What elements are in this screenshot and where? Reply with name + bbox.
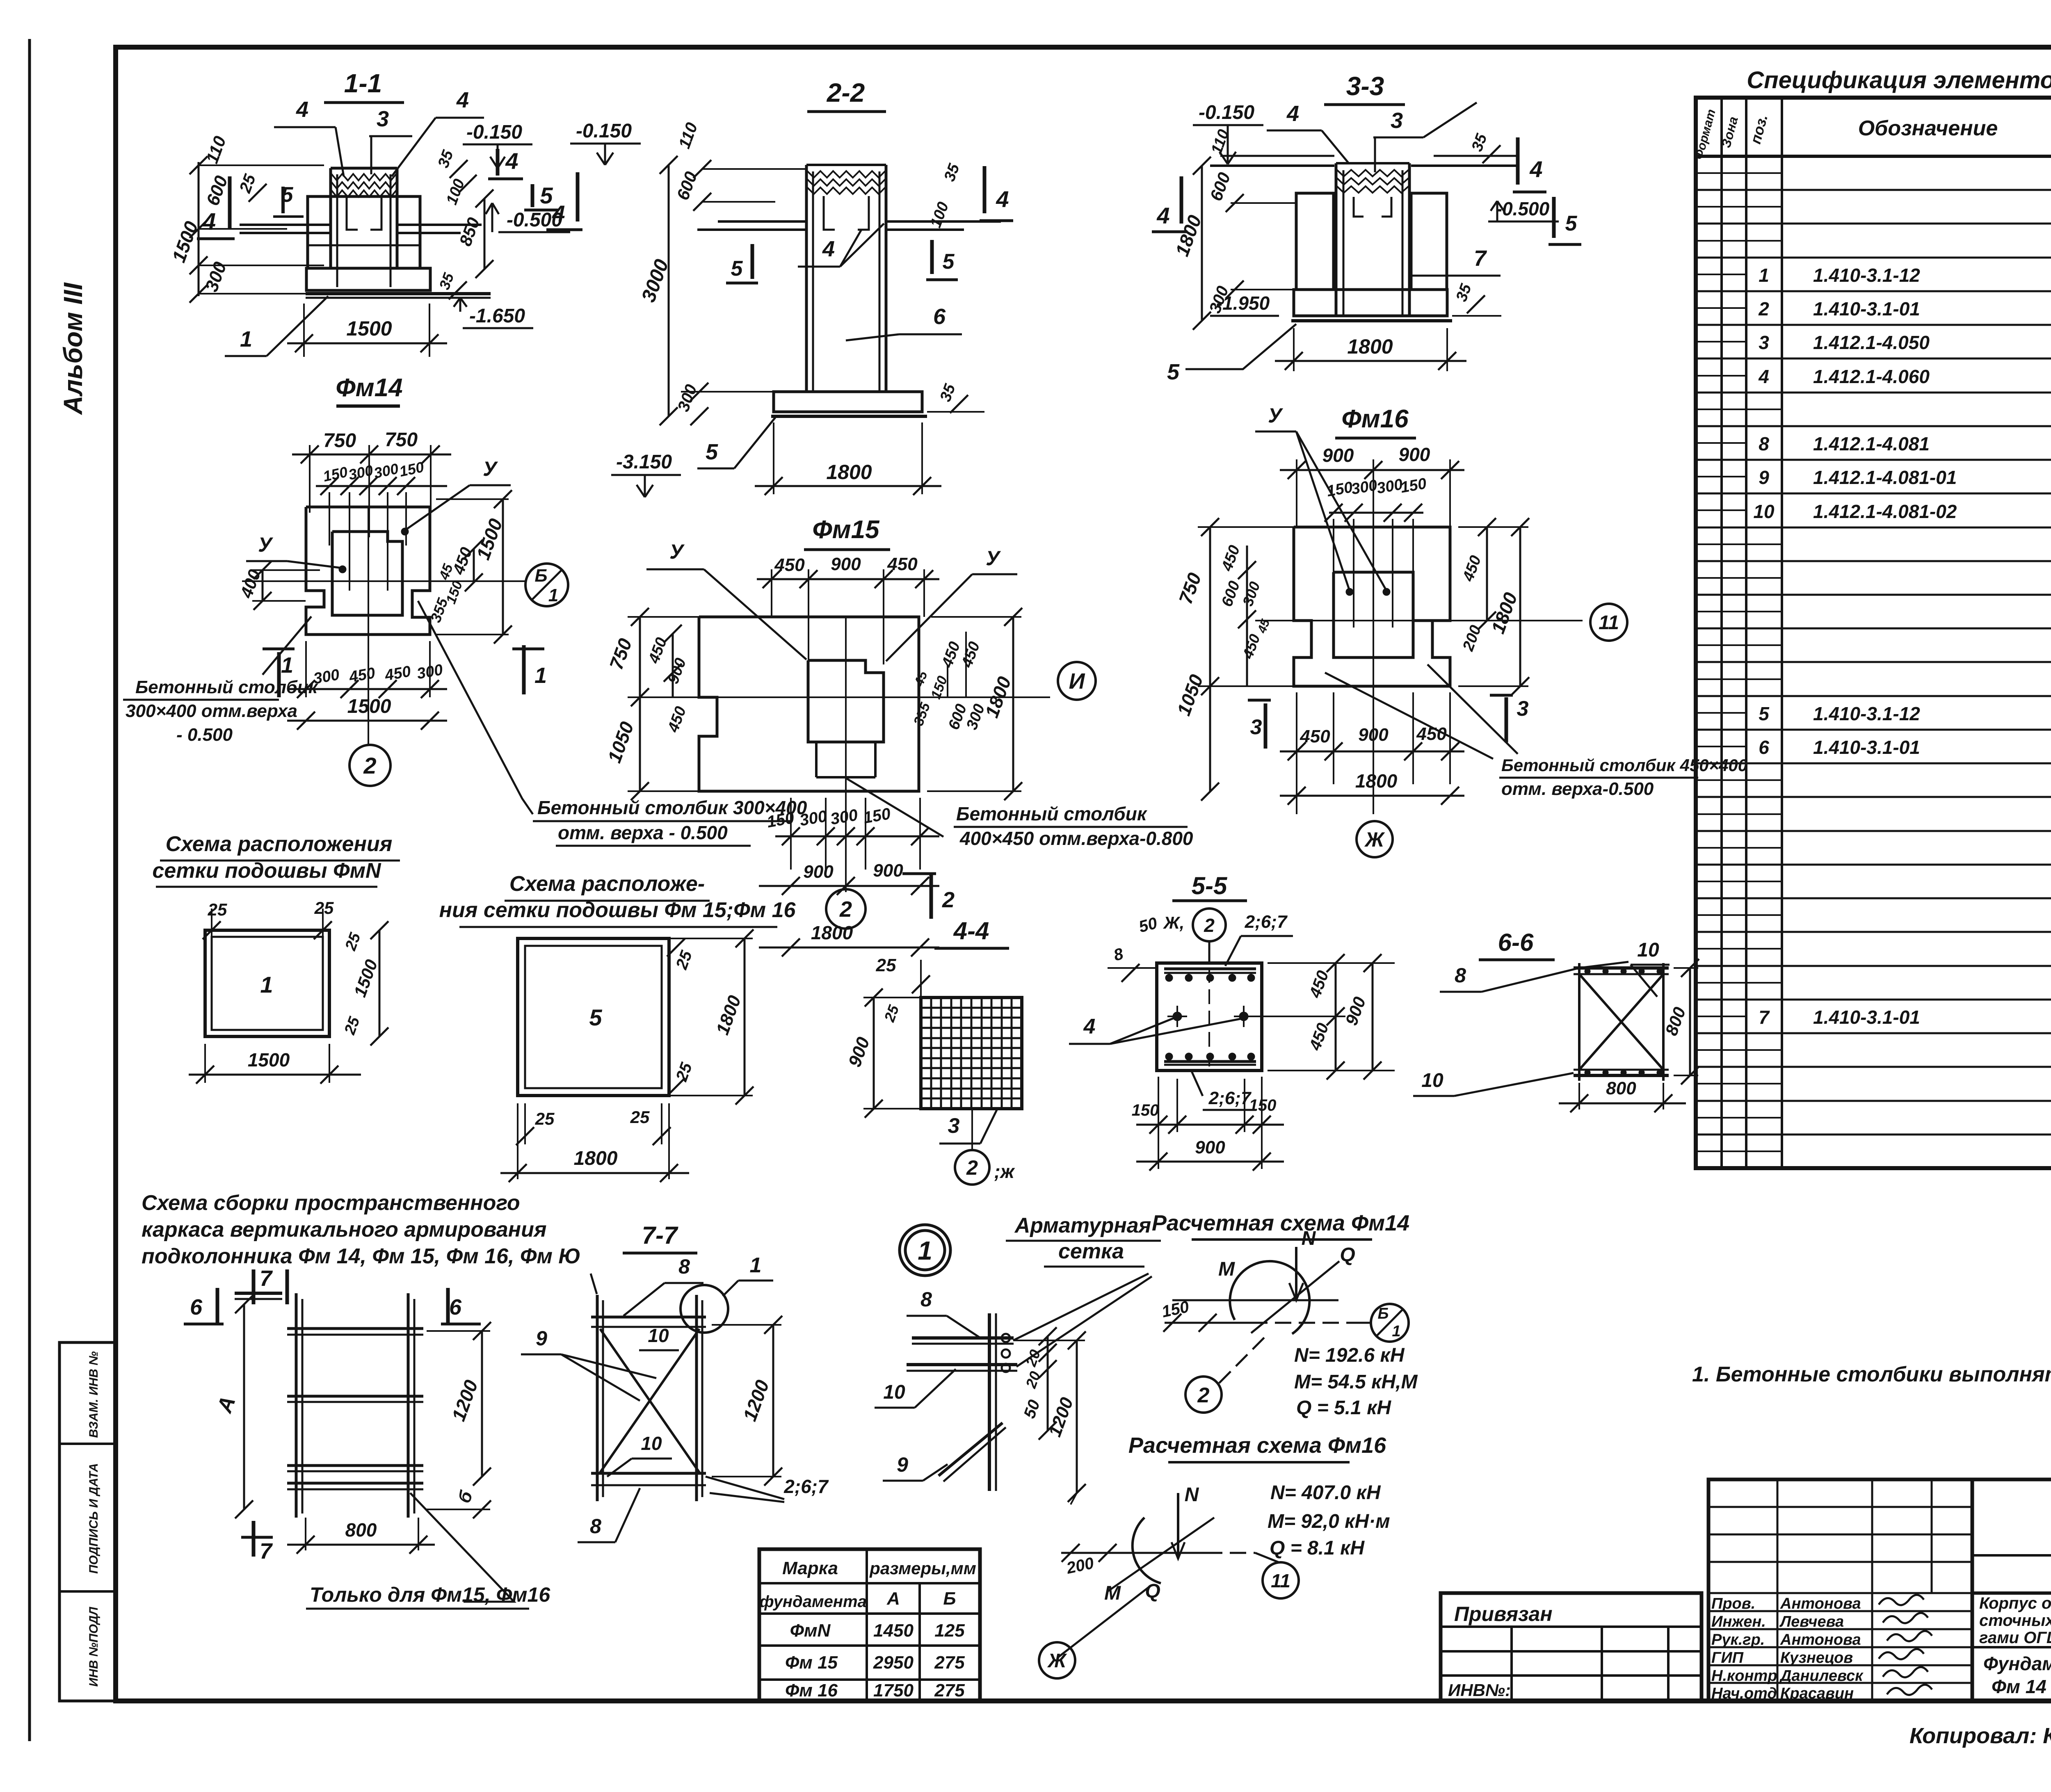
section 6-6 labels 8 10 top xyxy=(1440,939,1670,997)
svg-text:9: 9 xyxy=(1759,467,1769,488)
svg-text:Расчетная схема Фм16: Расчетная схема Фм16 xyxy=(1128,1433,1386,1458)
plan Фм14 pedestal xyxy=(332,532,402,615)
section 2-2 dim 35 right xyxy=(927,381,984,413)
section 6-6 rebar dots xyxy=(1585,968,1663,1075)
svg-text:4: 4 xyxy=(1156,203,1169,228)
section 3-3 footing xyxy=(1291,290,1452,321)
album label (rotated) Альбом III xyxy=(58,282,88,415)
plan Фм15 leader У xyxy=(646,540,1017,661)
ladder frame verticals xyxy=(296,1293,414,1518)
svg-text:6: 6 xyxy=(933,304,946,329)
svg-text:ПОДПИСЬ И ДАТА: ПОДПИСЬ И ДАТА xyxy=(87,1463,100,1574)
svg-text:-0.150: -0.150 xyxy=(466,121,522,143)
ladder top bar xyxy=(235,1293,282,1299)
svg-text:Нач.отд: Нач.отд xyxy=(1711,1685,1777,1702)
ladder rungs xyxy=(287,1329,423,1489)
svg-text:900: 900 xyxy=(803,862,834,882)
section 5-5 bottom dims 150 900 150 xyxy=(1132,1077,1284,1171)
plan Фм14 title xyxy=(336,374,402,406)
спецификация table header row xyxy=(1692,106,2051,161)
section 2-2 bottom dim 1800 xyxy=(755,422,941,495)
svg-text:Фм 14 ÷ Фм 16: Фм 14 ÷ Фм 16 xyxy=(1992,1676,2051,1697)
plan Фм15 axis circle И xyxy=(1058,662,1096,700)
svg-text:5: 5 xyxy=(706,440,718,464)
svg-text:Б: Б xyxy=(943,1589,956,1609)
section 2-2 cut markers right xyxy=(926,161,1013,280)
svg-text:2;6;7: 2;6;7 xyxy=(1245,912,1288,932)
plan Фм14 top dim 150 300 300 150 xyxy=(316,458,447,591)
svg-text:25: 25 xyxy=(208,900,227,919)
section 1-1 right cut markers 4 and 5 xyxy=(488,148,558,210)
svg-text:6-6: 6-6 xyxy=(1498,929,1534,956)
svg-text:4: 4 xyxy=(1529,156,1542,182)
svg-text:1: 1 xyxy=(548,585,558,605)
spec row 1 xyxy=(1759,258,2051,294)
svg-text:Данилевск: Данилевск xyxy=(1779,1667,1864,1685)
svg-text:900: 900 xyxy=(1358,725,1389,745)
svg-text:5: 5 xyxy=(281,183,294,207)
svg-text:Антонова: Антонова xyxy=(1780,1595,1861,1612)
svg-text:8: 8 xyxy=(1759,433,1769,454)
svg-text:Рук.гр.: Рук.гр. xyxy=(1711,1631,1765,1648)
plan Фм15 outer footprint xyxy=(699,617,919,791)
svg-text:10: 10 xyxy=(648,1325,669,1346)
svg-text:ГИП: ГИП xyxy=(1711,1649,1744,1666)
plan Фм16 right dim chain 1800 450 200 xyxy=(1458,518,1529,695)
svg-text:9: 9 xyxy=(897,1453,908,1476)
schema расположения сетки подошвы Фм15 Фм16 title xyxy=(439,872,796,927)
section 7-7 top and bottom bars xyxy=(591,1317,706,1485)
plan Фм15 pedestal with step xyxy=(808,660,884,777)
plan Фм16 cut marker 3 right xyxy=(1490,695,1529,742)
svg-text:2: 2 xyxy=(1204,915,1215,936)
section 3-3 leader 7 xyxy=(1411,246,1501,276)
section 3-3 left dim 1800 xyxy=(1171,127,1296,330)
section 7-7 labels xyxy=(521,1255,829,1542)
svg-text:25: 25 xyxy=(876,955,896,975)
svg-text:отм. верха-0.500: отм. верха-0.500 xyxy=(1501,779,1654,799)
plan Фм15 left dim chain 750 1050 xyxy=(603,608,699,800)
section 3-3 leaders 4 and 3 xyxy=(1267,101,1477,172)
svg-text:4: 4 xyxy=(996,186,1009,212)
section 1-1 cut marker 4 left xyxy=(197,176,235,239)
plan Фм14 leader У left xyxy=(246,533,346,573)
svg-text:1: 1 xyxy=(260,972,273,998)
svg-text:Обозначение: Обозначение xyxy=(1858,116,1998,140)
section 1-1 ground slab lines xyxy=(240,225,482,233)
svg-text:3: 3 xyxy=(1759,332,1769,353)
section 1-1 elevation -1.650 xyxy=(436,270,533,328)
svg-text:Альбом III: Альбом III xyxy=(58,282,88,415)
schema square 1 outline xyxy=(205,930,329,1036)
spec row 5 xyxy=(1759,696,2051,733)
section 1-1 leader 4 top left xyxy=(274,97,344,176)
svg-text:Пров.: Пров. xyxy=(1711,1595,1755,1612)
section 1-1 footing slab xyxy=(306,268,491,298)
schema square 5 outline xyxy=(518,938,669,1096)
spec row 4 xyxy=(1758,366,2051,387)
plan Фм14 bottom dim 1500 xyxy=(287,696,447,730)
svg-text:1: 1 xyxy=(534,663,547,688)
svg-text:Инжен.: Инжен. xyxy=(1711,1613,1766,1630)
section 2-2 leader 5 bottom xyxy=(697,418,775,468)
plan Фм15 bottom dim 900 900 xyxy=(759,861,939,895)
section 5-5 rebar dots top and bottom xyxy=(1165,974,1255,1060)
svg-text:3: 3 xyxy=(377,107,389,131)
svg-text:6: 6 xyxy=(1759,737,1769,758)
svg-text:1.412.1-4.081: 1.412.1-4.081 xyxy=(1813,433,1930,454)
svg-text:300×400 отм.верха: 300×400 отм.верха xyxy=(126,701,297,721)
svg-text:ИНВ №ПОДЛ: ИНВ №ПОДЛ xyxy=(87,1606,100,1687)
ladder bottom dim 800 xyxy=(287,1518,435,1554)
section 2-2 dim 300 bottom left xyxy=(674,382,774,425)
svg-text:2: 2 xyxy=(1758,298,1769,320)
section 6-6 title xyxy=(1479,929,1555,960)
section 1-1 right small dims 35 100 850 xyxy=(435,148,493,278)
svg-text:1500: 1500 xyxy=(346,317,392,340)
svg-text:1.412.1-4.081-01: 1.412.1-4.081-01 xyxy=(1813,467,1957,488)
section 2-2 title xyxy=(807,78,886,112)
spec row 7 xyxy=(1759,1000,2051,1036)
svg-text:7: 7 xyxy=(260,1539,273,1564)
svg-text:М= 54.5 кН,М: М= 54.5 кН,М xyxy=(1294,1371,1418,1393)
svg-text:900: 900 xyxy=(873,861,903,881)
svg-text:6: 6 xyxy=(190,1295,203,1319)
title block small grid xyxy=(1708,1479,1972,1701)
svg-text:сетки подошвы ФмN: сетки подошвы ФмN xyxy=(152,859,381,883)
svg-text:8: 8 xyxy=(678,1255,690,1278)
svg-text:7: 7 xyxy=(1759,1007,1770,1028)
арматурная сетка dims 50 20 20 1200 xyxy=(1013,1327,1086,1504)
svg-text:4: 4 xyxy=(1286,101,1299,126)
svg-text:125: 125 xyxy=(934,1621,965,1641)
svg-text:Фундаменты монолитные: Фундаменты монолитные xyxy=(1983,1653,2051,1674)
svg-text:11: 11 xyxy=(1271,1570,1290,1591)
ladder dim A left xyxy=(212,1295,253,1518)
svg-text:10: 10 xyxy=(883,1381,905,1403)
section 3-3 U rebar hooks xyxy=(1354,197,1391,217)
svg-text:У: У xyxy=(669,540,685,563)
svg-text:отм. верха - 0.500: отм. верха - 0.500 xyxy=(558,822,728,843)
section 6-6 label 10 bottom leader xyxy=(1413,1070,1574,1096)
plan Фм16 outer footprint xyxy=(1294,527,1450,686)
svg-text:25: 25 xyxy=(314,898,334,918)
section 3-3 column xyxy=(1336,163,1409,316)
plan Фм14 outer footprint xyxy=(306,507,430,635)
ladder note Только для Фм15 Фм16 xyxy=(306,1493,550,1609)
section 7-7 X bracing xyxy=(600,1329,699,1472)
расчетная схема Фм16 values xyxy=(1268,1482,1390,1559)
svg-text:Корпус обезвоживания осадка: Корпус обезвоживания осадка xyxy=(1979,1594,2051,1612)
svg-text:размеры,мм: размеры,мм xyxy=(869,1559,976,1578)
section 7-7 title xyxy=(623,1221,697,1253)
svg-text:2: 2 xyxy=(942,888,955,912)
svg-text:Антонова: Антонова xyxy=(1780,1631,1861,1648)
svg-text:Бетонный столбик: Бетонный столбик xyxy=(956,803,1148,824)
plan Фм16 pedestal xyxy=(1334,572,1432,657)
plan Фм15 note Бетонный столбик 400х450 xyxy=(846,778,1193,849)
svg-text:4: 4 xyxy=(1083,1015,1096,1039)
svg-text:900: 900 xyxy=(1399,444,1430,465)
schema расположения сетки подошвы ФмN title xyxy=(152,832,400,887)
svg-text:Б: Б xyxy=(534,566,547,586)
svg-text:1500: 1500 xyxy=(248,1049,290,1071)
svg-text:750: 750 xyxy=(323,430,356,452)
svg-text:5: 5 xyxy=(731,257,743,281)
section 5-5 left small dim 50 8 xyxy=(1108,945,1157,982)
svg-text:1.410-3.1-12: 1.410-3.1-12 xyxy=(1813,265,1920,286)
svg-text:275: 275 xyxy=(934,1680,965,1701)
svg-text:2;6;7: 2;6;7 xyxy=(783,1476,829,1497)
plan Фм16 top dim 900 900 xyxy=(1280,444,1464,537)
footer копировал line xyxy=(1909,1714,2051,1750)
section 5-5 title xyxy=(1172,872,1247,901)
svg-text:-1.650: -1.650 xyxy=(469,305,525,327)
svg-text:3: 3 xyxy=(1391,108,1403,133)
section 2-2 cut marker 5 left xyxy=(726,244,758,283)
svg-text:5: 5 xyxy=(1167,360,1180,384)
svg-text:1: 1 xyxy=(240,327,252,352)
section 1-1 small dims 25 and marker 5 xyxy=(236,171,304,217)
svg-text:5: 5 xyxy=(1565,212,1578,235)
section 5-5 column box xyxy=(1157,963,1262,1071)
svg-text:3: 3 xyxy=(1517,697,1529,721)
svg-text:Арматурная: Арматурная xyxy=(1014,1214,1151,1237)
svg-text:Ж,: Ж, xyxy=(1163,913,1185,932)
plan Фм16 centerlines xyxy=(1255,527,1583,814)
svg-text:Q: Q xyxy=(1145,1580,1160,1602)
section 4-4 leader 3 and axis circle 2 ж xyxy=(939,1109,1015,1185)
spec row 10 xyxy=(1753,501,2051,522)
svg-text:-0.150: -0.150 xyxy=(576,120,632,142)
svg-text:10: 10 xyxy=(641,1433,662,1454)
svg-text:Б: Б xyxy=(1378,1305,1389,1322)
svg-text:Q = 5.1 кН: Q = 5.1 кН xyxy=(1296,1397,1391,1419)
section 5-5 top and bottom rebar plates xyxy=(1164,969,1256,1065)
section 1-1 pedestal block xyxy=(308,196,420,268)
plan Фм15 cut marker 2 xyxy=(902,872,955,919)
spec row 8 xyxy=(1759,433,2051,454)
svg-text:4: 4 xyxy=(552,201,565,226)
paper left edge line xyxy=(28,39,31,1741)
svg-text:2: 2 xyxy=(966,1156,978,1179)
svg-text:1.410-3.1-12: 1.410-3.1-12 xyxy=(1813,703,1920,724)
svg-text:25: 25 xyxy=(535,1109,555,1128)
section 1-1 column outline xyxy=(308,168,419,287)
svg-text:М: М xyxy=(1218,1258,1235,1280)
svg-text:4: 4 xyxy=(822,237,835,261)
svg-text:10: 10 xyxy=(1753,501,1775,522)
plan Фм14 left dim 400 xyxy=(236,561,320,610)
svg-text:3-3: 3-3 xyxy=(1346,71,1384,101)
svg-text:1: 1 xyxy=(918,1236,932,1265)
svg-text:1450: 1450 xyxy=(873,1621,914,1641)
svg-text:Красавин: Красавин xyxy=(1780,1685,1854,1702)
section 1-1 leader 3 xyxy=(369,107,412,174)
section 3-3 title xyxy=(1324,71,1405,105)
svg-text:1800: 1800 xyxy=(1347,335,1393,358)
арматурная сетка label xyxy=(1006,1214,1161,1267)
svg-text:подколонника Фм 14, Фм 15, Фм: подколонника Фм 14, Фм 15, Фм 16, Фм Ю xyxy=(142,1244,581,1268)
svg-text:Расчетная схема Фм14: Расчетная схема Фм14 xyxy=(1152,1211,1409,1235)
svg-text:150: 150 xyxy=(1132,1101,1159,1119)
марка фундамента table xyxy=(759,1549,980,1701)
title block signature names xyxy=(1711,1595,1932,1702)
section 3-3 elevation -1.950 xyxy=(1210,292,1279,316)
svg-text:4: 4 xyxy=(505,148,518,174)
svg-text:1800: 1800 xyxy=(574,1148,618,1169)
plan Фм14 top dim 750 750 xyxy=(292,429,451,537)
спецификация table outer frame xyxy=(1696,98,2051,1168)
svg-text:Схема расположе-: Схема расположе- xyxy=(509,872,705,896)
plan Фм16 top dim 150 300 300 150 xyxy=(1325,475,1428,628)
svg-text:1. Бетонные столбики выполнять: 1. Бетонные столбики выполнять в одной о… xyxy=(1692,1363,2051,1386)
svg-text:4: 4 xyxy=(202,208,216,235)
section 2-2 elevation -0.150 left xyxy=(570,120,641,165)
section 2-2 cut marker 4 left xyxy=(546,172,582,230)
schema square 5 dims xyxy=(500,929,754,1182)
svg-text:900: 900 xyxy=(1322,445,1354,466)
plan Фм16 cut marker 3 left xyxy=(1248,700,1271,749)
svg-text:2: 2 xyxy=(363,753,376,778)
svg-text:8: 8 xyxy=(590,1515,601,1538)
svg-text:N= 407.0 кН: N= 407.0 кН xyxy=(1270,1482,1381,1504)
расчетная схема Фм14 diagram xyxy=(1160,1228,1409,1413)
section 1-1 bottom dim 1500 xyxy=(287,304,447,357)
section 2-2 column shaft xyxy=(806,165,886,392)
svg-text:800: 800 xyxy=(1606,1078,1636,1098)
svg-text:У: У xyxy=(986,547,1001,570)
спецификация row lines xyxy=(1696,173,2051,1151)
title block main box xyxy=(1972,1479,2051,1701)
svg-text:Схема расположения: Схема расположения xyxy=(166,832,393,856)
арматурная сетка labels 8 10 9 xyxy=(875,1288,980,1481)
plan Фм14 axis centerlines xyxy=(242,507,525,744)
section 2-2 left dim 3000 xyxy=(637,120,806,425)
svg-text:1.412.1-4.060: 1.412.1-4.060 xyxy=(1813,366,1930,387)
svg-text:5: 5 xyxy=(589,1004,602,1030)
svg-text:1800: 1800 xyxy=(826,461,872,484)
svg-text:25: 25 xyxy=(630,1107,650,1127)
ladder cut markers 6 7 xyxy=(184,1266,481,1564)
section 5-5 bottom label 2;6;7 xyxy=(1192,1071,1256,1110)
svg-text:Фм14: Фм14 xyxy=(336,374,402,402)
plan Фм15 inner dims right xyxy=(911,632,988,732)
svg-text:Q: Q xyxy=(1340,1244,1355,1266)
svg-text:1: 1 xyxy=(1392,1323,1400,1340)
расчетная схема Фм16 title xyxy=(1128,1433,1386,1462)
svg-text:1750: 1750 xyxy=(873,1680,914,1701)
svg-text:7: 7 xyxy=(1474,246,1487,271)
svg-text:каркаса вертикального армирова: каркаса вертикального армирования xyxy=(142,1218,546,1242)
left margin stamp boxes xyxy=(59,1342,116,1701)
section 5-5 center rebar diamonds and axis xyxy=(1167,968,1254,1066)
section 5-5 markers above xyxy=(1137,909,1293,966)
svg-text:2950: 2950 xyxy=(873,1653,914,1673)
plan Фм15 centerlines xyxy=(669,617,1050,892)
section 7-7 right dim 1200 xyxy=(712,1316,782,1486)
plan Фм16 leaders У 4 xyxy=(1255,404,1390,596)
section 6-6 right dim 800 xyxy=(1661,959,1699,1084)
plan Фм15 right dim 1800 xyxy=(927,608,1022,800)
plan Фм15 top dim 450 900 450 xyxy=(757,554,939,664)
general note 1 xyxy=(1692,1363,2051,1386)
svg-text:1.410-3.1-01: 1.410-3.1-01 xyxy=(1813,298,1920,320)
svg-text:-3.150: -3.150 xyxy=(616,451,672,473)
plan Фм16 axis circle Ж xyxy=(1357,821,1393,857)
section 2-2 leader 4 xyxy=(798,224,884,267)
svg-text:N: N xyxy=(1185,1484,1199,1506)
section 2-2 U rebar hooks xyxy=(824,196,869,230)
svg-text:N: N xyxy=(1302,1228,1316,1249)
section 4-4 mesh square xyxy=(921,998,1022,1109)
svg-text:2: 2 xyxy=(1197,1383,1210,1407)
section 1-1 leader 4 top right xyxy=(392,88,484,176)
section 1-1 elevation -0.500 xyxy=(486,203,570,232)
svg-text:1.412.1-4.081-02: 1.412.1-4.081-02 xyxy=(1813,501,1957,522)
svg-text:900: 900 xyxy=(1195,1137,1225,1157)
spec row 6 xyxy=(1759,730,2051,766)
svg-text:-1.950: -1.950 xyxy=(1216,292,1270,314)
plan Фм14 long leader to note Бетонный столбик 300х400 xyxy=(418,601,807,846)
section 7-7 detail circle xyxy=(681,1253,773,1333)
svg-text:У: У xyxy=(483,457,498,480)
svg-text:Копировал: Коршунова: Копировал: Коршунова xyxy=(1909,1724,2051,1748)
svg-text:-0.500: -0.500 xyxy=(1496,198,1550,219)
svg-text:Фм 15: Фм 15 xyxy=(785,1653,838,1673)
plan Фм16 title xyxy=(1335,405,1416,438)
svg-text:1800: 1800 xyxy=(1355,770,1398,792)
plan Фм16 bottom dim 450 900 450 xyxy=(1280,692,1464,814)
section 4-4 title xyxy=(934,917,1009,948)
section 3-3 excavation side blocks xyxy=(1296,193,1447,290)
svg-text:5: 5 xyxy=(1759,703,1770,724)
section 1-1 U rebar hooks xyxy=(347,197,381,230)
spec row 2 xyxy=(1758,291,2051,328)
арматурная сетка joint drawing xyxy=(907,1274,1152,1491)
расчетная схема Фм14 values xyxy=(1294,1345,1418,1419)
section 3-3 bottom dim 1800 xyxy=(1275,328,1466,371)
svg-text:8: 8 xyxy=(920,1288,932,1311)
схема сборки title 3 lines xyxy=(142,1191,581,1268)
svg-text:750: 750 xyxy=(385,429,418,451)
спецификация title xyxy=(1747,67,2051,94)
svg-text:900: 900 xyxy=(831,554,861,574)
plan Фм14 right dim chain 1500 450 xyxy=(427,490,512,644)
svg-text:-0.150: -0.150 xyxy=(1199,102,1254,123)
section 3-3 column mesh xyxy=(1337,170,1409,193)
svg-text:Фм16: Фм16 xyxy=(1341,405,1409,433)
spec row 9 xyxy=(1759,467,2051,488)
svg-text:ВЗАМ. ИНВ №: ВЗАМ. ИНВ № xyxy=(87,1351,100,1438)
section 1-1 left dimension chain xyxy=(168,134,324,303)
plan Фм15 bottom dim 150 300 300 150 xyxy=(765,798,939,870)
svg-text:5-5: 5-5 xyxy=(1192,872,1228,899)
svg-text:1: 1 xyxy=(281,653,293,678)
svg-text:1: 1 xyxy=(1759,265,1769,286)
section 3-3 leader 5 bottom xyxy=(1167,324,1296,384)
plan Фм16 left dim chain 750 1050 xyxy=(1173,518,1294,801)
svg-text:2-2: 2-2 xyxy=(827,78,865,107)
svg-text:1500: 1500 xyxy=(347,696,391,717)
svg-text:N= 192.6 кН: N= 192.6 кН xyxy=(1294,1345,1405,1366)
section 2-2 footing xyxy=(771,392,927,416)
section 2-2 column top mesh xyxy=(807,171,885,194)
section 1-1 leader 1 xyxy=(225,296,328,356)
svg-text:ния сетки подошвы Фм 15;Фм 16: ния сетки подошвы Фм 15;Фм 16 xyxy=(439,898,796,922)
svg-text:800: 800 xyxy=(345,1519,377,1541)
svg-text:10: 10 xyxy=(1421,1070,1443,1091)
